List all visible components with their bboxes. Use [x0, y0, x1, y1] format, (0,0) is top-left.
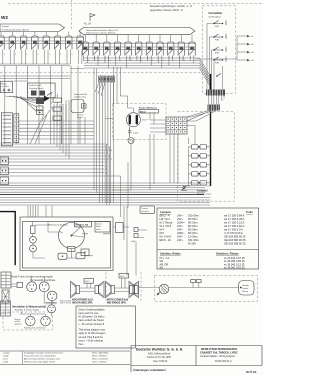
svg-text:W2: W2	[1, 15, 8, 20]
svg-text:keys L - M are missing: keys L - M are missing	[79, 339, 104, 342]
switch F5	[216, 74, 221, 77]
diode/relay pair D5	[189, 181, 211, 187]
svg-text:then.: then.	[79, 343, 85, 346]
svg-text:M / V M 8: M / V M 8	[160, 235, 172, 239]
svg-text:CABARET 160, TAROCK, LYRIC: CABARET 160, TAROCK, LYRIC	[200, 351, 238, 354]
wire: motor feed	[105, 96, 133, 119]
svg-text:Telefon (0 57 44) 1055: Telefon (0 57 44) 1055	[147, 356, 172, 359]
svg-text:ss 39 062 0,02 25: ss 39 062 0,02 25	[224, 266, 245, 270]
svg-text:SR: SR	[160, 266, 164, 270]
wire: cable banner 1 (keyboard switch bank label)	[0, 24, 65, 32]
wire: dashed separators bottom speakers	[106, 272, 141, 303]
component: trip solenoid	[58, 253, 67, 259]
svg-text:Film bisschen sind möglich imm: Film bisschen sind möglich immer	[24, 361, 55, 364]
resistor R5	[30, 222, 35, 234]
switch AS5 (selector contact)	[125, 42, 132, 62]
svg-text:MITTELTÖNER 2x8: MITTELTÖNER 2x8	[107, 299, 129, 302]
speaker LS5	[129, 281, 138, 297]
plug connector J1	[27, 282, 37, 292]
switch A1 (keyboard contact)	[0, 36, 5, 56]
connector AB: plugboard grid	[166, 117, 187, 134]
svg-text:Pickup: Pickup	[242, 291, 249, 293]
speaker LS2	[95, 281, 104, 297]
node: socket caption	[24, 327, 46, 330]
svg-text:22: 22	[105, 165, 107, 167]
node: cable tags gn/ws	[191, 280, 201, 288]
wire: left verticals from keyboard bus to ladder	[5, 66, 78, 144]
svg-text:Counting Switch: Counting Switch	[29, 87, 43, 90]
svg-text:M 6: M 6	[160, 231, 165, 235]
switch AS2 (selector contact)	[93, 42, 100, 62]
svg-text:3: 3	[71, 54, 72, 56]
node: speaker pair 2 caption	[107, 299, 129, 305]
svg-text:Musik-Truhen (Justiert werden): Musik-Truhen (Justiert werden) möglich	[11, 276, 54, 279]
wire: dashed separator left of banner 2	[71, 0, 73, 30]
switch A6 (keyboard contact)	[54, 36, 61, 56]
node: revision note	[133, 368, 166, 372]
speaker LS1	[71, 281, 80, 297]
svg-text:dann einfach die Tasten: dann einfach die Tasten	[79, 319, 105, 322]
component: crystal pickup	[239, 281, 254, 296]
switch A7 (keyboard contact)	[66, 36, 73, 56]
svg-text:Ws/rt = Ader/Ring: Ws/rt = Ader/Ring	[92, 351, 109, 354]
node: service switch label	[77, 114, 85, 118]
wire: arrows to remote lines	[237, 35, 254, 38]
switch: remote enable	[181, 186, 187, 191]
wire: remote kit dashed enclosure	[178, 112, 235, 202]
wire: plug strip interconnect	[209, 96, 224, 105]
wire: center vertical bundle	[94, 69, 114, 204]
svg-text:ws 17 150 0,3 A: ws 17 150 0,3 A	[224, 228, 243, 232]
svg-text:14: 14	[110, 150, 112, 152]
svg-text:Ws/rt = Weiß/rot: Ws/rt = Weiß/rot	[92, 355, 107, 358]
svg-text:24V~: 24V~	[177, 224, 184, 228]
svg-text:schalter: schalter	[2, 85, 9, 88]
component: printer label box	[140, 206, 155, 213]
diode/relay pair D3	[189, 163, 211, 174]
component: output transformer box	[2, 290, 9, 303]
svg-text:Selector lever contacts AS/1-: Selector lever contacts AS/1-11	[86, 32, 116, 35]
component: coupling caps	[131, 228, 144, 276]
wire: into plugboard	[150, 111, 216, 133]
svg-text:100 Ohm: 100 Ohm	[188, 214, 200, 218]
svg-text:Wahlschalter-Kontakte Hebel 1: Wahlschalter-Kontakte Hebel 1-11	[86, 29, 119, 32]
svg-text:Nur Mod. 160: Nur Mod. 160	[76, 224, 89, 226]
wire: thick main cable lower	[210, 111, 212, 187]
svg-text:M 4: M 4	[160, 228, 165, 232]
connector ST1 (hatched plug strip)	[206, 90, 225, 96]
svg-text:3: 3	[120, 60, 121, 62]
svg-text:LM / M 4: LM / M 4	[160, 217, 171, 221]
svg-text:13: 13	[108, 147, 110, 149]
node: table headers	[160, 210, 253, 214]
node: maker name	[136, 348, 183, 363]
svg-text:Drucktasten-Kontakte A0/1-8: Drucktasten-Kontakte A0/1-8	[2, 28, 30, 31]
node: remote selector title	[209, 11, 223, 18]
wire: link line across selector switches	[82, 43, 196, 49]
svg-text:24V~: 24V~	[177, 214, 184, 218]
svg-text:Motor: Motor	[140, 110, 146, 113]
svg-text:3: 3	[195, 60, 196, 62]
wire: selector bus stack to main cable	[84, 58, 210, 85]
node: ladder labels	[106, 144, 112, 161]
svg-text:für Musikbox: für Musikbox	[209, 15, 222, 18]
switch AS6 (selector contact)	[136, 42, 143, 62]
svg-text:60 Ohm: 60 Ohm	[188, 224, 198, 228]
svg-text:Änderungen vorbehalten!: Änderungen vorbehalten!	[133, 368, 166, 372]
wire: speaker pair 2	[115, 278, 130, 292]
wire: title block frame	[131, 346, 262, 373]
node flag: wire marker	[84, 14, 95, 26]
svg-text:Alle nicht bezeichneten Leitun: Alle nicht bezeichneten Leitungen sind	[24, 358, 60, 361]
wire: dashed service border	[50, 93, 52, 110]
svg-text:Erweiterungsleitungen, Länder,: Erweiterungsleitungen, Länder, 1 - 8	[150, 4, 192, 8]
component: model 160 box	[75, 222, 92, 227]
component K1: credit unit box	[1, 113, 12, 146]
node: Fernwahl label	[197, 190, 212, 196]
relay R1 with diode (dark cluster)	[36, 96, 50, 115]
svg-text:55 Ohm: 55 Ohm	[188, 228, 198, 232]
svg-text:3: 3	[49, 54, 50, 56]
svg-text:HOCHTÖNER 2x12: HOCHTÖNER 2x12	[72, 299, 94, 302]
svg-text:230 V~: 230 V~	[142, 120, 149, 122]
wire: speaker pair 1	[80, 283, 96, 291]
node: changer label strip	[48, 224, 68, 227]
switch AS1 (selector contact)	[82, 42, 89, 62]
node: socket note	[15, 318, 22, 325]
transducer: tonearm cartridge	[157, 284, 169, 295]
diode/relay pair D2	[189, 154, 211, 165]
svg-text:Schalter, Relais: Schalter, Relais	[160, 252, 181, 256]
svg-text:as well. Plug 8 and the: as well. Plug 8 and the	[79, 336, 104, 339]
node: adjustment caption	[11, 276, 56, 283]
node: table header 2	[160, 252, 239, 256]
svg-text:3: 3	[60, 54, 61, 56]
motor M1 dashed enclosure	[112, 104, 166, 140]
wire: remote selector dashed enclosure	[203, 6, 236, 94]
svg-text:0,1µF: 0,1µF	[133, 133, 139, 135]
connector: terminal column beside credit unit	[14, 114, 19, 143]
switch F2 (remote selector contact)	[213, 34, 226, 42]
svg-text:3: 3	[38, 54, 39, 56]
svg-text:Fernwähler: Fernwähler	[209, 11, 223, 15]
switch A4 (keyboard contact)	[32, 36, 39, 56]
svg-text:gegenüber Version 160/1 - 8: gegenüber Version 160/1 - 8	[150, 8, 183, 12]
speaker LS3	[106, 281, 115, 297]
wire: ladder bus group A	[0, 144, 109, 159]
switch A3 (keyboard contact)	[20, 36, 27, 56]
svg-text:Verstärker & Netzanschluß: Verstärker & Netzanschluß	[12, 305, 46, 309]
svg-text:Printer 8: Printer 8	[142, 210, 149, 213]
component: aux label box	[95, 222, 110, 233]
wire: cable banner 2 (selector switch bank label)	[79, 28, 195, 35]
wire: amp feeds	[20, 300, 52, 316]
plug connector J3	[47, 291, 57, 301]
svg-text:- ws/bl: - ws/bl	[2, 362, 9, 364]
wire: note above banner 2	[150, 4, 192, 12]
svg-text:EM 5 - 10: EM 5 - 10	[160, 238, 172, 242]
svg-text:Coils: Coils	[246, 210, 253, 214]
wire: top dashed section border	[8, 3, 263, 5]
wire: keyboard switch drops	[0, 55, 82, 64]
switch F1 (remote selector contact)	[213, 21, 226, 29]
solenoid L2	[30, 245, 37, 252]
svg-text:W 160: W 160	[188, 242, 196, 246]
svg-text:Lampen: Lampen	[160, 210, 171, 214]
svg-text:50 Ohm: 50 Ohm	[188, 231, 198, 235]
motor M1	[126, 113, 140, 127]
wire: dashed chassis border	[0, 72, 201, 74]
svg-text:220V~: 220V~	[177, 231, 185, 235]
connector ST2 (hatched plug strip small)	[208, 105, 221, 111]
wire: chain feed	[170, 126, 211, 187]
svg-text:apply to W 100 changers: apply to W 100 changers	[79, 332, 107, 335]
solenoid L1	[28, 236, 36, 243]
svg-text:W 1 / W 8: W 1 / W 8	[160, 224, 172, 228]
svg-text:4901 Hüllhorst/Westf.: 4901 Hüllhorst/Westf.	[148, 353, 171, 356]
node: motor labels	[139, 107, 159, 122]
svg-text:Two-colour wires are indicated: Two-colour wires are indicated like	[24, 355, 57, 358]
svg-text:3: 3	[173, 60, 174, 62]
switch AS11 (selector contact)	[189, 42, 196, 62]
svg-text:Zusatz: Zusatz	[96, 223, 102, 226]
node: ladder labels B	[105, 162, 107, 175]
wire: mid band buses	[0, 183, 205, 195]
tube socket V1	[26, 316, 36, 326]
svg-text:24: 24	[105, 172, 107, 174]
svg-text:ws 17 150 0,62 A: ws 17 150 0,62 A	[224, 224, 244, 228]
svg-text:kann auch für eine: kann auch für eine	[79, 312, 100, 315]
svg-text:24V~: 24V~	[177, 235, 184, 239]
switch F4 (remote selector contact)	[213, 57, 226, 65]
switch A8 (keyboard contact)	[77, 36, 84, 56]
wire: pickup cable	[139, 287, 239, 289]
svg-text:OE 003 298 00 25: OE 003 298 00 25	[224, 242, 246, 246]
svg-text:100V=: 100V=	[177, 221, 185, 225]
motor M2: selector disc	[59, 223, 85, 252]
wire: plug feeds	[32, 276, 53, 304]
wire: fan into relay cluster	[5, 96, 37, 112]
svg-text:Dieser Geräteschaltplan: Dieser Geräteschaltplan	[79, 308, 106, 311]
svg-text:3: 3	[131, 60, 132, 62]
node: speaker pair 2 label box	[119, 273, 129, 278]
svg-text:gehäuse: gehäuse	[15, 323, 22, 325]
svg-text:Drucker: Drucker	[142, 207, 149, 210]
svg-text:This wiring diagram may: This wiring diagram may	[79, 329, 106, 332]
svg-text:21: 21	[105, 162, 107, 164]
wire: crossing verticals mid sheet	[54, 67, 154, 276]
svg-text:L - M und der Drucker 8: L - M und der Drucker 8	[79, 323, 105, 326]
svg-text:3: 3	[26, 54, 27, 56]
svg-text:Tonarm-Rücksetz: Tonarm-Rücksetz	[139, 107, 158, 110]
resistor group R2-R4	[53, 94, 62, 126]
svg-text:impulse relay: impulse relay	[74, 97, 86, 99]
svg-text:rt 17 150 9,03 A: rt 17 150 9,03 A	[224, 231, 243, 235]
node: speaker pair 1 label box	[84, 279, 94, 284]
relay box: counting switch	[28, 83, 55, 98]
relay box: coin switch	[1, 81, 13, 93]
switch F3 (remote selector contact)	[213, 47, 226, 55]
svg-text:Switches, Relays: Switches, Relays	[216, 252, 239, 256]
switch AS10 (selector contact)	[178, 42, 185, 62]
svg-text:Telex 972120: Telex 972120	[153, 360, 168, 363]
diode/relay pair D1	[189, 145, 211, 156]
connector: amplifier grid plug 2	[1, 301, 11, 316]
component: lift solenoid	[81, 249, 89, 256]
svg-text:Tonabn.: Tonabn.	[242, 285, 250, 287]
svg-text:3: 3	[152, 60, 153, 62]
switch A2 (keyboard contact)	[9, 36, 16, 56]
svg-text:220 V~ 50 Hz: 220 V~ 50 Hz	[60, 303, 71, 305]
wire: diagonal fan to ladder	[30, 104, 85, 144]
svg-text:EM 1 - 4: EM 1 - 4	[160, 214, 171, 218]
wire: thick main cable upper	[210, 74, 212, 90]
component: record changer chassis inner	[23, 222, 111, 269]
switch AS9 (selector contact)	[168, 42, 175, 62]
svg-text:24V~: 24V~	[177, 238, 184, 242]
plug connector J2	[39, 282, 49, 292]
svg-text:M 1 Throat: M 1 Throat	[160, 221, 173, 225]
wire: banner 2 links to selector switches	[86, 35, 193, 42]
node W2: sheet mark top-left	[1, 15, 8, 20]
svg-text:3: 3	[109, 60, 110, 62]
plug connector J4	[48, 305, 56, 313]
capacitor C1 0,1uF	[128, 127, 139, 137]
svg-text:3: 3	[4, 54, 5, 56]
wire: ladder bus group B	[0, 162, 121, 176]
wire: footnote rule bottom	[0, 364, 130, 366]
svg-text:OE 003 583 00 25: OE 003 583 00 25	[224, 235, 246, 239]
switch AS8 (selector contact)	[157, 42, 164, 62]
connector: center pin row	[99, 76, 115, 82]
wire: selector bus	[0, 69, 84, 77]
wire: dense bus group bottom	[0, 198, 210, 206]
svg-text:Geräteschaltplan - Wiring Diag: Geräteschaltplan - Wiring Diagram	[200, 355, 235, 358]
node: note box (W100 note)	[76, 306, 135, 348]
svg-text:OE 003 596 00 25: OE 003 596 00 25	[224, 238, 246, 242]
switch AS4 (selector contact)	[114, 42, 121, 62]
svg-text:Crystal: Crystal	[242, 287, 249, 290]
component: small jack	[11, 282, 22, 287]
svg-text:Zweifarbige Leitungen sind bez: Zweifarbige Leitungen sind bezeichnet mi…	[24, 351, 63, 354]
svg-text:Tastatur: Tastatur	[2, 25, 10, 28]
wire: solenoid links	[33, 225, 50, 258]
wire: footnote rule top	[0, 350, 130, 352]
svg-text:W 100 gelten. Es fehlen: W 100 gelten. Es fehlen	[79, 316, 106, 319]
svg-text:3: 3	[184, 60, 185, 62]
svg-text:65 Ohm: 65 Ohm	[188, 217, 198, 221]
component: auxiliary box	[113, 223, 129, 233]
svg-text:3: 3	[99, 60, 100, 62]
svg-text:Ge/rt = Gelb/rot: Ge/rt = Gelb/rot	[92, 361, 107, 364]
svg-text:MID RANGE SPK.: MID RANGE SPK.	[107, 301, 127, 304]
svg-text:ws 17 150 0,45 A: ws 17 150 0,45 A	[224, 217, 244, 221]
speaker LS4	[130, 281, 139, 297]
svg-text:relais: relais	[96, 228, 101, 231]
wire: bundle into changer	[28, 206, 52, 218]
svg-text:J-2: J-2	[166, 256, 170, 260]
plug P1 under motor box	[128, 138, 134, 144]
wire: table separator	[157, 249, 259, 251]
relay: impulse relay	[71, 93, 88, 112]
svg-text:Kabelbuchse und Stecker: Kabelbuchse und Stecker	[24, 327, 46, 330]
svg-text:17: 17	[110, 159, 112, 161]
svg-text:56.77 AA: 56.77 AA	[246, 371, 257, 374]
wire: footnote column divider	[22, 351, 24, 365]
svg-text:AL 1-8: AL 1-8	[84, 23, 92, 26]
svg-text:16: 16	[108, 156, 110, 158]
svg-text:3: 3	[88, 60, 89, 62]
svg-text:45190 000 00 Q: 45190 000 00 Q	[215, 361, 232, 363]
svg-text:3: 3	[15, 54, 16, 56]
node: model title	[200, 347, 238, 363]
wire: remote selector drops to plug	[207, 20, 226, 90]
switch AS7 (selector contact)	[146, 42, 153, 62]
svg-text:ws 17 150 0,64 A: ws 17 150 0,64 A	[224, 214, 244, 218]
wire: banner 1 links to keyboard switches	[1, 32, 80, 37]
svg-text:3: 3	[141, 60, 142, 62]
svg-text:- ws/rt: - ws/rt	[2, 358, 8, 361]
svg-text:24V~: 24V~	[177, 217, 184, 221]
node: sheet number	[246, 371, 257, 374]
svg-text:151 Ohm: 151 Ohm	[188, 238, 200, 242]
svg-text:90 Ohm: 90 Ohm	[188, 221, 198, 225]
wire: keyboard bus pair	[0, 64, 70, 81]
svg-text:- ws/ge: - ws/ge	[2, 356, 10, 358]
switch A5 (keyboard contact)	[43, 36, 50, 56]
wire: thick mains lead	[0, 212, 15, 266]
svg-text:2x6V: 2x6V	[131, 241, 136, 243]
svg-text:23: 23	[105, 169, 107, 171]
wire: changer internal	[48, 222, 147, 259]
svg-text:ws 17 150 0,21 A: ws 17 150 0,21 A	[224, 221, 244, 225]
svg-text:Fernauswahl Anschlüsse: Fernauswahl Anschlüsse	[30, 279, 56, 282]
svg-text:24V~: 24V~	[177, 228, 184, 232]
svg-text:Plattenwechsler-Motor: Plattenwechsler-Motor	[48, 224, 68, 227]
tube socket V2	[41, 316, 51, 326]
svg-text:WURLITZER PHONOGRAPH: WURLITZER PHONOGRAPH	[201, 347, 237, 351]
connector: left edge terminal boxes	[0, 157, 9, 165]
svg-text:Motor: Motor	[96, 225, 101, 228]
wire: sub-ladder terminal links	[19, 121, 94, 139]
node: table rows (lamp/coil list)	[160, 214, 246, 246]
component: mute switch	[76, 253, 93, 259]
component: record changer chassis outer	[20, 217, 113, 271]
node: amplifier section title	[12, 305, 46, 312]
svg-text:Amplifier & Power Supply: Amplifier & Power Supply	[15, 309, 40, 312]
svg-text:3: 3	[163, 60, 164, 62]
node: speaker pair 1 caption	[72, 299, 94, 305]
svg-text:12 Ohm: 12 Ohm	[188, 235, 198, 239]
connector: amplifier grid plug	[1, 272, 11, 288]
diode/relay pair D4	[189, 172, 211, 183]
node: mains label strip	[45, 300, 71, 305]
wire: amplifier dashed box	[3, 312, 53, 330]
wire: selector switch drops	[84, 56, 194, 69]
node: footnote rows	[2, 351, 109, 363]
svg-text:Ws/rt = white/red: Ws/rt = white/red	[92, 358, 108, 361]
svg-text:Deutsche Wurlitzer G. m. b. H.: Deutsche Wurlitzer G. m. b. H.	[136, 348, 183, 352]
node: table rows 2 (switch/relay list)	[160, 256, 246, 270]
svg-text:HIGH RANGE SPK.: HIGH RANGE SPK.	[72, 301, 93, 304]
switch AS3 (selector contact)	[104, 42, 111, 62]
svg-text:- wenge: - wenge	[2, 352, 10, 354]
component: parts table frame	[157, 208, 259, 269]
wire: link line across keyboard switches	[0, 37, 84, 43]
wire: remote feed verticals	[196, 36, 237, 60]
wire: pickup dashed enclosure	[154, 276, 257, 302]
